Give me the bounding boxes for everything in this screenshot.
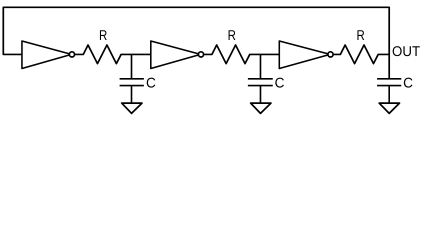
svg-text:C: C bbox=[275, 74, 285, 90]
svg-text:R: R bbox=[356, 28, 364, 44]
svg-text:R: R bbox=[99, 28, 107, 44]
svg-text:C: C bbox=[403, 74, 413, 90]
svg-text:R: R bbox=[228, 28, 236, 44]
svg-text:OUT: OUT bbox=[392, 43, 420, 59]
svg-text:C: C bbox=[146, 74, 156, 90]
